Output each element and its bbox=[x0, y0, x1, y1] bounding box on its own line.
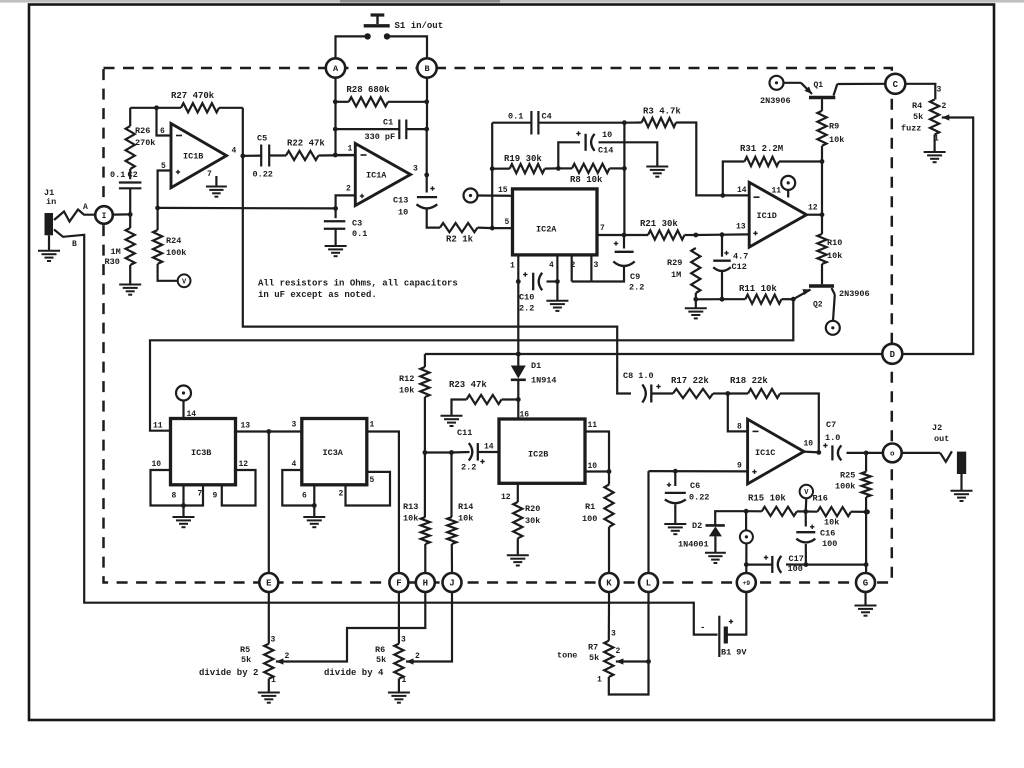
svg-text:L: L bbox=[646, 579, 651, 589]
svg-text:All resistors in Ohms, all cap: All resistors in Ohms, all capacitors bbox=[258, 279, 458, 289]
svg-text:R15 10k: R15 10k bbox=[748, 494, 786, 504]
svg-text:+9: +9 bbox=[742, 580, 750, 587]
svg-text:R25: R25 bbox=[840, 471, 855, 481]
svg-text:2: 2 bbox=[616, 647, 621, 656]
svg-text:out: out bbox=[934, 434, 949, 444]
svg-text:5k: 5k bbox=[241, 655, 251, 665]
svg-text:Q1: Q1 bbox=[814, 81, 824, 90]
svg-text:R16: R16 bbox=[813, 494, 828, 504]
svg-text:R2 1k: R2 1k bbox=[446, 235, 474, 245]
svg-text:divide by 2: divide by 2 bbox=[199, 668, 258, 678]
svg-text:2.2: 2.2 bbox=[629, 283, 644, 293]
svg-text:11: 11 bbox=[772, 187, 782, 196]
svg-text:14: 14 bbox=[484, 443, 494, 452]
svg-text:R3 4.7k: R3 4.7k bbox=[643, 107, 681, 117]
svg-text:C6: C6 bbox=[690, 481, 700, 491]
svg-text:4.7: 4.7 bbox=[733, 252, 748, 262]
svg-text:14: 14 bbox=[737, 186, 747, 195]
svg-text:IC3A: IC3A bbox=[323, 448, 344, 458]
svg-text:7: 7 bbox=[198, 490, 203, 499]
svg-text:0.1: 0.1 bbox=[352, 229, 367, 239]
svg-text:13: 13 bbox=[736, 223, 746, 232]
svg-text:R30: R30 bbox=[105, 257, 120, 267]
svg-text:R24: R24 bbox=[166, 236, 181, 246]
svg-text:10k: 10k bbox=[458, 514, 473, 524]
svg-text:1M: 1M bbox=[671, 270, 681, 280]
svg-text:2.2: 2.2 bbox=[461, 463, 476, 473]
svg-text:B: B bbox=[424, 64, 429, 74]
svg-text:R14: R14 bbox=[458, 502, 473, 512]
svg-text:R21 30k: R21 30k bbox=[640, 219, 678, 229]
svg-text:C13: C13 bbox=[393, 196, 408, 206]
svg-text:A: A bbox=[333, 64, 339, 74]
svg-text:14: 14 bbox=[187, 410, 197, 419]
svg-text:3: 3 bbox=[611, 630, 616, 639]
svg-text:10: 10 bbox=[804, 440, 814, 449]
svg-text:D1: D1 bbox=[531, 361, 541, 371]
svg-text:2: 2 bbox=[339, 490, 344, 499]
svg-text:R27 470k: R27 470k bbox=[171, 91, 215, 101]
svg-text:C4: C4 bbox=[542, 112, 552, 122]
svg-text:IC1C: IC1C bbox=[755, 448, 775, 458]
svg-text:1: 1 bbox=[370, 421, 375, 430]
svg-text:C12: C12 bbox=[732, 262, 747, 272]
svg-text:IC2B: IC2B bbox=[528, 450, 548, 460]
svg-text:C3: C3 bbox=[352, 219, 362, 229]
svg-text:10k: 10k bbox=[827, 251, 842, 261]
svg-text:6: 6 bbox=[302, 492, 307, 501]
svg-text:270k: 270k bbox=[135, 138, 155, 148]
svg-text:fuzz: fuzz bbox=[901, 124, 921, 134]
svg-text:3: 3 bbox=[401, 636, 406, 645]
svg-text:in uF except as noted.: in uF except as noted. bbox=[258, 290, 377, 300]
svg-text:J2: J2 bbox=[932, 423, 942, 433]
svg-text:R17 22k: R17 22k bbox=[671, 376, 709, 386]
svg-text:0.1: 0.1 bbox=[110, 170, 125, 180]
svg-text:R10: R10 bbox=[827, 238, 842, 248]
svg-text:o: o bbox=[890, 451, 895, 459]
svg-text:J: J bbox=[449, 579, 454, 589]
svg-text:C11: C11 bbox=[457, 428, 472, 438]
svg-text:5k: 5k bbox=[589, 653, 599, 663]
svg-text:R5: R5 bbox=[240, 645, 250, 655]
svg-text:8: 8 bbox=[737, 423, 742, 432]
svg-text:2N3906: 2N3906 bbox=[760, 96, 791, 106]
svg-text:100: 100 bbox=[788, 564, 803, 574]
svg-text:R22 47k: R22 47k bbox=[287, 139, 325, 149]
svg-text:IC3B: IC3B bbox=[191, 448, 211, 458]
svg-text:1: 1 bbox=[348, 145, 353, 154]
svg-text:13: 13 bbox=[241, 422, 251, 431]
svg-text:100k: 100k bbox=[835, 482, 855, 492]
svg-text:R13: R13 bbox=[403, 502, 418, 512]
svg-text:3: 3 bbox=[292, 421, 297, 430]
svg-text:1: 1 bbox=[597, 676, 602, 685]
svg-text:C9: C9 bbox=[630, 272, 640, 282]
svg-text:10k: 10k bbox=[399, 386, 414, 396]
svg-text:C14: C14 bbox=[598, 146, 613, 156]
svg-text:1: 1 bbox=[510, 262, 515, 271]
svg-text:7: 7 bbox=[600, 224, 605, 233]
svg-text:4: 4 bbox=[549, 261, 554, 270]
svg-text:R26: R26 bbox=[135, 126, 150, 136]
svg-text:C10: C10 bbox=[519, 293, 534, 303]
svg-text:0.1: 0.1 bbox=[508, 112, 523, 122]
svg-text:in: in bbox=[46, 197, 56, 207]
svg-text:15: 15 bbox=[498, 186, 508, 195]
svg-text:10k: 10k bbox=[824, 518, 839, 528]
svg-text:R8 10k: R8 10k bbox=[570, 175, 603, 185]
svg-text:10: 10 bbox=[152, 460, 162, 469]
svg-text:R19 30k: R19 30k bbox=[504, 154, 542, 164]
svg-text:1N914: 1N914 bbox=[531, 376, 557, 386]
svg-text:C: C bbox=[893, 80, 899, 90]
svg-text:F: F bbox=[396, 579, 401, 589]
svg-text:100: 100 bbox=[582, 514, 597, 524]
svg-text:IC1A: IC1A bbox=[366, 171, 387, 181]
svg-text:H: H bbox=[423, 579, 428, 589]
svg-text:3: 3 bbox=[413, 165, 418, 174]
svg-text:1: 1 bbox=[934, 135, 939, 144]
svg-text:10k: 10k bbox=[403, 514, 418, 524]
svg-text:30k: 30k bbox=[525, 516, 540, 526]
svg-text:100: 100 bbox=[822, 539, 837, 549]
svg-text:E: E bbox=[266, 579, 272, 589]
svg-text:1M: 1M bbox=[111, 247, 121, 257]
svg-text:R1: R1 bbox=[585, 502, 595, 512]
svg-text:G: G bbox=[863, 579, 868, 589]
svg-text:2: 2 bbox=[346, 185, 351, 194]
svg-text:8: 8 bbox=[172, 492, 177, 501]
svg-text:K: K bbox=[606, 579, 612, 589]
svg-text:1.0: 1.0 bbox=[825, 433, 840, 443]
svg-text:3: 3 bbox=[271, 636, 276, 645]
svg-text:B1 9V: B1 9V bbox=[721, 648, 747, 658]
svg-text:330 pF: 330 pF bbox=[365, 132, 396, 142]
svg-text:R6: R6 bbox=[375, 645, 385, 655]
svg-text:0.22: 0.22 bbox=[253, 170, 273, 180]
svg-text:10: 10 bbox=[602, 130, 612, 140]
svg-text:C17: C17 bbox=[789, 554, 804, 564]
svg-text:100k: 100k bbox=[166, 248, 186, 258]
svg-text:I: I bbox=[102, 212, 107, 221]
svg-text:2: 2 bbox=[415, 652, 420, 661]
svg-text:R29: R29 bbox=[667, 258, 682, 268]
svg-text:2: 2 bbox=[285, 652, 290, 661]
svg-text:5k: 5k bbox=[376, 655, 386, 665]
svg-text:divide by 4: divide by 4 bbox=[324, 668, 384, 678]
svg-text:5: 5 bbox=[370, 476, 375, 485]
svg-text:D2: D2 bbox=[692, 521, 702, 531]
svg-text:12: 12 bbox=[808, 204, 818, 213]
svg-text:5k: 5k bbox=[913, 112, 923, 122]
svg-text:1N4001: 1N4001 bbox=[678, 540, 709, 550]
svg-text:2.2: 2.2 bbox=[519, 304, 534, 314]
svg-text:1: 1 bbox=[271, 676, 276, 685]
svg-text:R12: R12 bbox=[399, 374, 414, 384]
svg-text:IC1B: IC1B bbox=[183, 152, 203, 162]
svg-text:R28 680k: R28 680k bbox=[346, 85, 390, 95]
svg-text:2: 2 bbox=[942, 102, 947, 111]
svg-text:C7: C7 bbox=[826, 420, 836, 430]
svg-text:D: D bbox=[890, 350, 896, 360]
svg-text:A: A bbox=[83, 203, 88, 212]
svg-text:4: 4 bbox=[292, 460, 297, 469]
svg-text:0.22: 0.22 bbox=[689, 493, 709, 503]
svg-text:16: 16 bbox=[520, 411, 530, 420]
svg-text:C5: C5 bbox=[257, 134, 267, 144]
svg-text:R23 47k: R23 47k bbox=[449, 380, 487, 390]
svg-text:C2: C2 bbox=[128, 170, 138, 180]
svg-text:tone: tone bbox=[557, 651, 577, 661]
svg-text:5: 5 bbox=[505, 218, 510, 227]
svg-text:IC1D: IC1D bbox=[757, 211, 777, 221]
svg-text:9: 9 bbox=[737, 462, 742, 471]
svg-text:C8 1.0: C8 1.0 bbox=[623, 371, 654, 381]
svg-text:9: 9 bbox=[213, 492, 218, 501]
svg-text:2N3906: 2N3906 bbox=[839, 289, 870, 299]
svg-text:R11 10k: R11 10k bbox=[739, 284, 777, 294]
svg-text:12: 12 bbox=[239, 460, 249, 469]
svg-text:3: 3 bbox=[937, 86, 942, 95]
svg-text:1: 1 bbox=[402, 676, 407, 685]
svg-text:-: - bbox=[700, 623, 705, 633]
svg-text:C1: C1 bbox=[383, 118, 393, 128]
svg-text:10: 10 bbox=[398, 208, 408, 218]
svg-text:11: 11 bbox=[153, 422, 163, 431]
svg-text:3: 3 bbox=[594, 261, 599, 270]
svg-text:11: 11 bbox=[588, 421, 598, 430]
svg-text:B: B bbox=[72, 240, 77, 249]
svg-text:10k: 10k bbox=[829, 135, 844, 145]
svg-text:C16: C16 bbox=[820, 529, 835, 539]
svg-text:12: 12 bbox=[501, 493, 511, 502]
svg-text:7: 7 bbox=[207, 170, 212, 179]
svg-text:R9: R9 bbox=[829, 122, 839, 132]
svg-text:IC2A: IC2A bbox=[536, 225, 557, 235]
svg-text:R20: R20 bbox=[525, 504, 540, 514]
svg-text:R4: R4 bbox=[912, 101, 922, 111]
svg-text:Q2: Q2 bbox=[813, 301, 823, 310]
svg-text:S1 in/out: S1 in/out bbox=[395, 21, 444, 31]
svg-text:R31 2.2M: R31 2.2M bbox=[740, 144, 783, 154]
svg-text:4: 4 bbox=[232, 147, 237, 156]
svg-text:R7: R7 bbox=[588, 643, 598, 653]
svg-text:10: 10 bbox=[588, 462, 598, 471]
svg-text:R18 22k: R18 22k bbox=[730, 376, 768, 386]
